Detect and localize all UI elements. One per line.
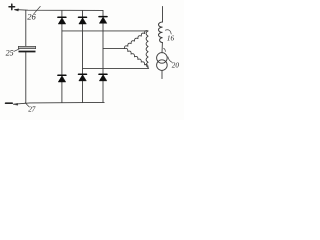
- wire left vertical lower: [25, 53, 27, 104]
- diode D1 top leg1: [58, 17, 66, 24]
- wire top rail: [15, 9, 103, 12]
- diode D4 bottom leg1: [58, 75, 66, 82]
- arrowhead at + lead: [14, 9, 18, 11]
- delta winding bottom side: [124, 48, 148, 67]
- diode D5 bottom leg2: [79, 74, 87, 81]
- wire leg 1 vertical: [61, 10, 63, 102]
- wire leg 3 vertical: [102, 10, 104, 102]
- wire phase C tap: [83, 67, 149, 70]
- leader for 25: [14, 49, 19, 52]
- plus terminal label: [9, 4, 15, 10]
- wire phase A tap: [62, 30, 148, 32]
- svg-text:26: 26: [27, 11, 36, 21]
- wire bottom rail: [14, 102, 105, 104]
- delta winding top side: [124, 31, 148, 49]
- svg-text:25: 25: [6, 49, 14, 58]
- svg-text:27: 27: [28, 105, 36, 113]
- wire coil to slip rings: [161, 43, 163, 53]
- delta winding right side: [146, 31, 148, 68]
- wire leg 2 vertical: [82, 10, 84, 102]
- svg-text:20: 20: [172, 62, 180, 70]
- capacitor C25: [18, 46, 35, 51]
- wire left vertical upper: [25, 10, 27, 46]
- wire field lead top: [162, 7, 164, 23]
- leader for 20: [168, 57, 172, 63]
- arrowhead at minus lead: [13, 103, 17, 105]
- wire phase B tap: [103, 48, 125, 50]
- field coil L16: [158, 22, 162, 43]
- leader for 26: [34, 6, 41, 13]
- diode D6 bottom leg3: [99, 74, 107, 81]
- leader for 27: [25, 103, 29, 107]
- diode D3 top leg3: [99, 17, 107, 24]
- minus terminal label: [6, 102, 13, 104]
- wire below slip rings: [161, 70, 163, 78]
- diode D2 top leg2: [79, 17, 87, 24]
- slip ring upper circle: [157, 53, 168, 64]
- svg-text:16: 16: [167, 35, 175, 43]
- tick mark near field lead: [164, 48, 166, 51]
- leader for 16: [165, 30, 171, 34]
- slip ring lower circle: [157, 60, 168, 71]
